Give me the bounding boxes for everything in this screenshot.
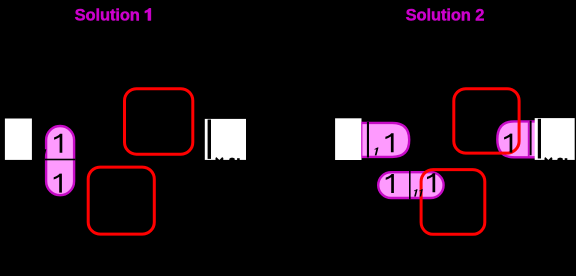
magenta cell border line (map 2 right)	[528, 121, 530, 158]
subscript labels on pill (map 2 row 2)	[413, 189, 418, 196]
white group box left (map 1)	[5, 119, 32, 160]
white group box right (map 2)	[535, 118, 575, 160]
red loop top (map 2)	[454, 89, 519, 153]
map 2 right border line	[538, 119, 541, 159]
grid column line across pill (map 2 row 2)	[409, 171, 411, 199]
pink pill horizontal (map 2 row 2, two cells)	[378, 172, 443, 198]
red loop bottom (map 1)	[88, 167, 154, 234]
grid line over pink cell (map 2 right)	[530, 121, 532, 156]
subscript label near pill (map 2 row 1)	[373, 148, 378, 156]
white group box left (map 2)	[335, 118, 361, 160]
white group box right (map 1)	[205, 119, 246, 160]
pink pill horizontal wrapped-left (map 2 row 1)	[357, 123, 409, 157]
red loop top (map 1)	[125, 89, 193, 155]
svg-text:Solution 2: Solution 2	[406, 7, 485, 25]
digit 1 (map 2 bottom pill left)	[386, 174, 394, 193]
label glyph tops under map 1 right box	[216, 157, 224, 160]
map 2 left border line over pill	[361, 122, 362, 158]
digit 1 (map 2 left pill)	[385, 133, 393, 152]
pink cell wrapped-right (map 2 row 1)	[497, 121, 537, 157]
digit 1 (map 1 cell bottom)	[54, 174, 62, 193]
red loop bottom (map 2)	[421, 170, 485, 235]
digit 1 (map 2 bottom pill right)	[427, 173, 435, 192]
map 1 right border line	[208, 120, 211, 159]
label fragment at pill left edge (map 1)	[41, 149, 46, 157]
digit 1 (map 1 cell top)	[54, 134, 62, 153]
label glyph tops under map 2 right box	[545, 157, 553, 160]
pink pill vertical (map 1, two cells)	[46, 126, 74, 195]
grid row line across pill (map 1)	[45, 159, 75, 161]
svg-text:Solution: Solution	[75, 6, 140, 24]
digit 1 (map 2 right cell)	[504, 134, 512, 153]
